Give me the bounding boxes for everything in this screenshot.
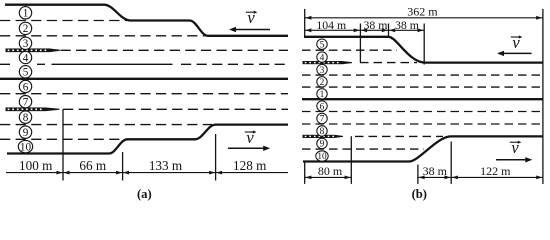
svg-text:38 m: 38 m bbox=[423, 164, 448, 178]
svg-text:9: 9 bbox=[320, 140, 325, 150]
svg-text:1: 1 bbox=[23, 8, 29, 20]
svg-text:4: 4 bbox=[320, 53, 325, 63]
svg-text:38 m: 38 m bbox=[395, 18, 419, 32]
svg-text:2: 2 bbox=[23, 23, 29, 35]
svg-text:38 m: 38 m bbox=[364, 18, 388, 32]
svg-text:66 m: 66 m bbox=[79, 158, 106, 173]
svg-text:8: 8 bbox=[23, 112, 29, 124]
svg-text:100 m: 100 m bbox=[19, 158, 53, 173]
svg-text:6: 6 bbox=[23, 81, 29, 93]
svg-text:10: 10 bbox=[20, 141, 32, 153]
svg-text:6: 6 bbox=[320, 102, 325, 112]
svg-text:133 m: 133 m bbox=[149, 158, 183, 173]
svg-text:(b): (b) bbox=[412, 187, 427, 201]
svg-text:362 m: 362 m bbox=[407, 5, 438, 19]
svg-text:1: 1 bbox=[320, 90, 325, 100]
svg-text:5: 5 bbox=[320, 40, 325, 50]
svg-text:8: 8 bbox=[320, 127, 325, 137]
svg-text:3: 3 bbox=[320, 66, 325, 76]
svg-text:128 m: 128 m bbox=[233, 158, 267, 173]
svg-text:9: 9 bbox=[23, 127, 29, 139]
svg-text:5: 5 bbox=[23, 67, 29, 79]
svg-text:104 m: 104 m bbox=[316, 18, 346, 32]
svg-text:(a): (a) bbox=[137, 187, 152, 201]
svg-text:4: 4 bbox=[23, 52, 29, 64]
svg-text:2: 2 bbox=[320, 78, 325, 88]
svg-text:80 m: 80 m bbox=[318, 164, 343, 178]
svg-text:7: 7 bbox=[320, 115, 325, 125]
svg-text:3: 3 bbox=[23, 38, 29, 50]
svg-text:10: 10 bbox=[317, 152, 327, 162]
svg-text:122 m: 122 m bbox=[480, 164, 511, 178]
svg-text:7: 7 bbox=[23, 97, 29, 109]
